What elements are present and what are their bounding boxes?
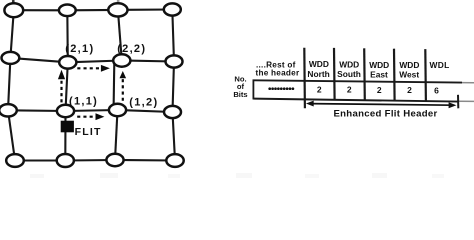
dashed arrow (1,1) to (1,2) horizontal — [77, 113, 104, 120]
label No. of Bits — [233, 75, 247, 99]
wire col3 between (1,2) and R4C3 — [115, 110, 118, 160]
svg-text:(1,2): (1,2) — [129, 97, 158, 109]
svg-text:2: 2 — [377, 85, 382, 95]
dashed arrow (1,1) to (2,1) vertical — [58, 70, 65, 103]
svg-text:(2,1): (2,1) — [65, 43, 94, 55]
wire col3 vertical — [118, 10, 122, 61]
column separator 4 — [393, 49, 396, 101]
wire row2 horizontal — [10, 58, 174, 62]
svg-text:North: North — [307, 69, 329, 79]
node (1,1) router — [57, 105, 74, 117]
svg-text:WDD: WDD — [399, 60, 419, 70]
wire row1 horizontal — [14, 8, 173, 11]
table row box top border — [253, 80, 474, 83]
wire row3 horizontal — [8, 110, 173, 112]
wire row4 horizontal — [15, 159, 175, 162]
node R1C3 — [108, 3, 127, 16]
dashed arrow (2,1) to (2,2) horizontal — [77, 65, 110, 72]
svg-text:East: East — [370, 69, 388, 79]
svg-text:2: 2 — [317, 84, 322, 94]
column separator 1 (left of WDD North), extends down as arrow stop — [303, 48, 306, 108]
wire stub above node R1C3 — [117, 0, 120, 4]
node (2,1) router — [59, 56, 76, 69]
node R3C1 — [0, 104, 17, 116]
FLIT square marker — [61, 121, 74, 133]
svg-text:WDD: WDD — [339, 60, 359, 70]
node (1,2) router — [109, 104, 126, 116]
column separator 5 (left of WDL) — [424, 49, 427, 101]
svg-text:Enhanced Flit Header: Enhanced Flit Header — [333, 108, 437, 119]
node (2,2) router — [113, 54, 130, 66]
node R4C3 — [106, 154, 123, 166]
cell dots ......... — [268, 87, 294, 90]
svg-text:South: South — [337, 69, 361, 79]
wire col4 vertical — [172, 10, 175, 161]
svg-text:WDD: WDD — [369, 60, 389, 70]
column separator 2 — [333, 48, 336, 100]
svg-text:2: 2 — [347, 85, 352, 95]
label WDD South — [337, 60, 361, 80]
svg-text:6: 6 — [434, 85, 439, 95]
column separator 3 — [363, 48, 366, 100]
node R2C4 — [166, 55, 183, 67]
svg-text:WDL: WDL — [430, 60, 450, 70]
node R4C4 — [166, 154, 183, 167]
wire col3 between (2,2) and (1,2) — [113, 62, 116, 108]
wire stub above node R1C1 — [12, 0, 15, 5]
wire col2 vertical — [65, 10, 68, 160]
label WDD North — [307, 59, 329, 79]
node R3C4 — [164, 106, 181, 118]
svg-text:Bits: Bits — [233, 90, 247, 99]
table row box bottom border — [253, 99, 474, 102]
node R1C4 — [164, 3, 181, 15]
svg-text:West: West — [399, 70, 419, 80]
label WDD East — [369, 60, 389, 80]
svg-text:FLIT: FLIT — [75, 126, 102, 138]
faint cropped caption remnants along bottom — [30, 173, 444, 178]
node R1C1 — [4, 3, 23, 17]
svg-text:2: 2 — [407, 85, 412, 95]
right tick / arrow stop — [457, 95, 459, 109]
node R1C2 — [59, 5, 76, 17]
label Rest of the header — [256, 60, 300, 77]
table row box left edge — [252, 80, 254, 100]
node R2C1 — [2, 52, 20, 64]
svg-text:WDD: WDD — [309, 59, 329, 69]
svg-text:(2,2): (2,2) — [117, 43, 146, 55]
node R4C1 — [6, 154, 24, 167]
svg-text:the header: the header — [256, 68, 300, 77]
dashed arrow (1,2) to (2,2) vertical — [120, 71, 127, 101]
svg-text:(1,1): (1,1) — [69, 96, 98, 108]
double-headed arrow Enhanced Flit Header span — [306, 101, 457, 109]
node R4C2 — [57, 154, 74, 167]
label WDD West — [399, 60, 419, 80]
wire col1 vertical — [8, 10, 15, 160]
